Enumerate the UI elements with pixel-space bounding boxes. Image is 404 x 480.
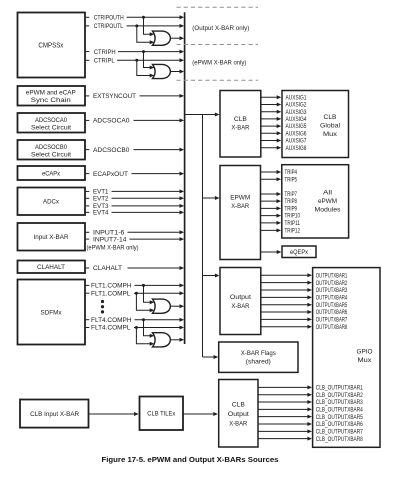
svg-text:FLT4.COMPL: FLT4.COMPL <box>91 325 131 332</box>
wire AUXSIG4 <box>261 118 278 120</box>
dashed separator bottom <box>177 79 259 81</box>
svg-text:(ePWM X-BAR only): (ePWM X-BAR only) <box>192 60 246 67</box>
wire CTRIPOUTL to bus <box>127 25 181 27</box>
block SDFMx sigma delta filter module <box>18 280 86 345</box>
wire TRIP7 <box>261 193 278 195</box>
svg-text:CTRIPOUTH: CTRIPOUTH <box>94 15 124 22</box>
signal INPUT1-6 <box>85 231 89 233</box>
block eQEPx <box>282 246 316 258</box>
svg-text:CLB: CLB <box>324 114 337 121</box>
svg-text:CLB: CLB <box>234 116 247 123</box>
wire G3 output to bus <box>171 305 181 307</box>
svg-text:(ePWM X-BAR only): (ePWM X-BAR only) <box>87 245 139 252</box>
svg-text:Mux: Mux <box>358 357 373 364</box>
wire CLB_OUTPUTXBAR4 <box>258 408 309 410</box>
svg-text:ePWM and eCAP: ePWM and eCAP <box>26 90 77 97</box>
block CLB Global Mux <box>282 91 349 158</box>
or-gate G1 CTRIPOUT combine <box>153 31 171 45</box>
svg-text:AUXSIG6: AUXSIG6 <box>286 131 308 137</box>
svg-text:eCAPx: eCAPx <box>42 170 61 177</box>
wire CTRIPL to bus <box>117 59 181 61</box>
wire FLT4.COMPL to OR gate G4 <box>136 328 150 344</box>
pin CTRIPH label and tick <box>85 51 89 53</box>
signal ECAPxOUT <box>85 173 89 175</box>
block ADCSOCA0 Select Circuit <box>18 113 86 133</box>
svg-text:CLB_OUTPUTXBAR8: CLB_OUTPUTXBAR8 <box>316 437 364 443</box>
wire OUTPUTXBAR6 <box>261 311 309 313</box>
svg-text:AUXSIG7: AUXSIG7 <box>286 139 308 145</box>
svg-text:(shared): (shared) <box>246 359 271 366</box>
wire CTRIPH to bus <box>118 51 181 53</box>
block EPWM X-BAR <box>220 166 261 260</box>
wire CLB_OUTPUTXBAR5 <box>258 416 309 418</box>
svg-text:AUXSIG2: AUXSIG2 <box>286 103 308 109</box>
svg-text:SDFMx: SDFMx <box>41 309 63 316</box>
svg-text:AUXSIG8: AUXSIG8 <box>286 146 308 152</box>
svg-text:TRIP7: TRIP7 <box>285 192 298 198</box>
block ADCx <box>18 188 86 216</box>
svg-text:CTRIPH: CTRIPH <box>94 49 116 56</box>
svg-text:OUTPUTXBAR7: OUTPUTXBAR7 <box>316 318 348 324</box>
pin FLT4.COMPL label and tick <box>85 327 89 329</box>
wire OUTPUTXBAR3 <box>261 289 309 291</box>
svg-text:X-BAR: X-BAR <box>229 420 247 427</box>
dashed separator top <box>177 6 259 8</box>
wire TRIP4 <box>261 171 278 173</box>
wire CTRIPH to OR gate G2 <box>144 52 151 68</box>
svg-text:CLAHALT: CLAHALT <box>37 264 65 271</box>
svg-text:Input X-BAR: Input X-BAR <box>34 234 69 241</box>
svg-text:TRIP5: TRIP5 <box>285 177 298 183</box>
junction FLT4.COMPH <box>142 318 145 321</box>
svg-text:EVT4: EVT4 <box>93 210 109 217</box>
block Input X-BAR <box>18 223 86 251</box>
block CLB Output X-BAR <box>219 380 258 448</box>
svg-text:Mux: Mux <box>323 131 338 138</box>
svg-text:ADCx: ADCx <box>43 199 60 206</box>
block CLB TILEx <box>140 397 184 431</box>
svg-text:All: All <box>323 190 333 197</box>
svg-text:OUTPUTXBAR3: OUTPUTXBAR3 <box>316 288 348 294</box>
svg-text:eQEPx: eQEPx <box>290 249 308 256</box>
wire OUTPUTXBAR4 <box>261 296 309 298</box>
svg-text:AUXSIG1: AUXSIG1 <box>286 95 308 101</box>
pin CTRIPL label and tick <box>85 59 89 61</box>
block ePWM and eCAP Sync Chain <box>18 86 86 106</box>
signal CLAHALT <box>85 267 89 269</box>
svg-text:X-BAR: X-BAR <box>231 203 249 210</box>
svg-text:TRIP10: TRIP10 <box>285 214 301 220</box>
junction FLT4.COMPL <box>135 326 138 329</box>
junction CTRIPH <box>142 50 145 53</box>
svg-text:CLB_OUTPUTXBAR7: CLB_OUTPUTXBAR7 <box>316 429 364 435</box>
svg-text:Sync Chain: Sync Chain <box>31 97 71 104</box>
wire G4 output to bus <box>171 339 181 341</box>
svg-text:CLB Input X-BAR: CLB Input X-BAR <box>30 411 79 418</box>
svg-text:X-BAR: X-BAR <box>231 303 249 310</box>
svg-text:FLT1.COMPH: FLT1.COMPH <box>91 283 132 290</box>
pin FLT4.COMPH label and tick <box>85 319 89 321</box>
svg-text:CLB_OUTPUTXBAR2: CLB_OUTPUTXBAR2 <box>316 393 364 399</box>
svg-text:ePWM: ePWM <box>318 198 337 205</box>
wire distribution vertical <box>202 115 204 358</box>
svg-text:OUTPUTXBAR8: OUTPUTXBAR8 <box>316 325 348 331</box>
wire OUTPUTXBAR7 <box>261 318 309 320</box>
wire CTRIPL to OR gate G2 <box>137 60 151 75</box>
junction CTRIPOUTH <box>142 16 145 19</box>
svg-text:GPIO: GPIO <box>357 348 373 355</box>
svg-text:EPWM: EPWM <box>230 194 250 201</box>
wire branch to Output X-BAR input <box>203 275 217 277</box>
svg-text:CMPSSx: CMPSSx <box>38 42 63 49</box>
svg-text:ADCSOCA0: ADCSOCA0 <box>35 117 67 124</box>
signal EVT1 <box>85 190 89 192</box>
svg-text:Output: Output <box>230 294 251 301</box>
signal EVT4 <box>85 211 89 213</box>
wire CLB TILEx to CLB Output X-BAR <box>183 413 215 415</box>
or-gate G2 CTRIP combine <box>153 64 171 78</box>
wire CTRIPOUTH to bus <box>127 16 181 18</box>
svg-text:OUTPUTXBAR6: OUTPUTXBAR6 <box>316 310 348 316</box>
pin FLT1.COMPH label and tick <box>85 284 89 286</box>
svg-text:CTRIPOUTL: CTRIPOUTL <box>94 23 124 30</box>
svg-text:CLB: CLB <box>232 402 245 409</box>
svg-text:CTRIPL: CTRIPL <box>94 58 116 65</box>
wire AUXSIG5 <box>261 125 278 127</box>
svg-text:OUTPUTXBAR4: OUTPUTXBAR4 <box>316 295 348 301</box>
svg-text:AUXSIG3: AUXSIG3 <box>286 110 308 116</box>
svg-text:EXTSYNCOUT: EXTSYNCOUT <box>93 93 136 100</box>
svg-text:X-BAR Flags: X-BAR Flags <box>241 350 277 357</box>
wire AUXSIG1 <box>261 96 278 98</box>
or-gate G4 FLT4 combine <box>153 333 171 347</box>
wire AUXSIG3 <box>261 111 278 113</box>
svg-text:OUTPUTXBAR2: OUTPUTXBAR2 <box>316 281 348 287</box>
svg-text:Modules: Modules <box>315 207 342 214</box>
wire TRIP8 <box>261 200 278 202</box>
wire branch to X-BAR Flags input <box>203 356 216 358</box>
wire G1 output to bus <box>171 37 181 39</box>
wire TRIP12 <box>261 229 278 231</box>
wire TRIP11 <box>261 222 278 224</box>
svg-text:Output: Output <box>228 411 249 418</box>
svg-text:AUXSIG5: AUXSIG5 <box>286 124 308 130</box>
svg-text:CLB_OUTPUTXBAR3: CLB_OUTPUTXBAR3 <box>316 400 364 406</box>
junction CTRIPOUTL <box>135 24 138 27</box>
pin CTRIPOUTL label and tick <box>85 25 89 27</box>
svg-text:ADCSOCA0: ADCSOCA0 <box>93 118 130 125</box>
signal EVT2 <box>85 197 89 199</box>
wire FLT1.COMPH to OR gate G3 <box>144 285 151 302</box>
wire CLB_OUTPUTXBAR8 <box>258 438 309 440</box>
or-gate G3 FLT1 combine <box>153 299 171 313</box>
block GPIO Mux <box>313 268 380 448</box>
svg-text:TRIP8: TRIP8 <box>285 199 298 205</box>
signal ADCSOCA0 <box>85 119 89 121</box>
block CLAHALT <box>18 261 86 274</box>
svg-text:Global: Global <box>320 123 340 130</box>
wire FLT4.COMPH to bus <box>135 319 181 321</box>
wire OUTPUTXBAR2 <box>261 282 309 284</box>
svg-text:Select Circuit: Select Circuit <box>31 151 71 158</box>
junction CTRIPL <box>135 59 138 62</box>
wire CLB_OUTPUTXBAR7 <box>258 430 309 432</box>
svg-text:ECAPxOUT: ECAPxOUT <box>93 171 128 178</box>
svg-text:Select Circuit: Select Circuit <box>31 124 71 131</box>
wire CLB_OUTPUTXBAR1 <box>258 386 309 388</box>
block CLB X-BAR <box>220 91 261 158</box>
signal INPUT7-14 <box>85 238 89 240</box>
svg-text:CLB TILEx: CLB TILEx <box>147 411 176 418</box>
wire AUXSIG7 <box>261 140 278 142</box>
wire OUTPUTXBAR1 <box>261 274 309 276</box>
wire TRIP10 <box>261 215 278 217</box>
wire bus to CLB X-BAR input <box>185 114 217 116</box>
svg-text:OUTPUTXBAR5: OUTPUTXBAR5 <box>316 303 348 309</box>
block ADCSOCB0 Select Circuit <box>18 140 86 160</box>
wire CTRIPOUTL to OR gate G1 <box>137 26 151 42</box>
ellipsis between FLT1 and FLT4 <box>101 300 104 303</box>
block eCAPx <box>18 166 86 180</box>
wire AUXSIG2 <box>261 104 278 106</box>
wire branch to EPWM X-BAR input <box>203 197 217 199</box>
pin CTRIPOUTH label and tick <box>85 16 89 18</box>
svg-text:CLB_OUTPUTXBAR4: CLB_OUTPUTXBAR4 <box>316 407 364 413</box>
svg-text:CLB_OUTPUTXBAR1: CLB_OUTPUTXBAR1 <box>316 386 364 392</box>
svg-text:TRIP9: TRIP9 <box>285 207 298 213</box>
wire FLT4.COMPL to bus <box>134 327 181 329</box>
signal EVT3 <box>85 205 89 207</box>
svg-text:TRIP4: TRIP4 <box>285 170 298 176</box>
svg-text:AUXSIG4: AUXSIG4 <box>286 117 308 123</box>
junction FLT1.COMPH <box>142 284 145 287</box>
svg-text:OUTPUTXBAR1: OUTPUTXBAR1 <box>316 273 348 279</box>
wire main signal bus vertical <box>184 12 186 344</box>
wire CLB Input X-BAR to CLB TILEx <box>89 413 136 415</box>
wire EPWM X-BAR to eQEPx <box>261 251 279 253</box>
svg-text:FLT4.COMPH: FLT4.COMPH <box>91 317 132 324</box>
wire AUXSIG8 <box>261 147 278 149</box>
wire FLT1.COMPL to OR gate G3 <box>136 293 150 310</box>
svg-text:CLAHALT: CLAHALT <box>93 265 122 272</box>
pin FLT1.COMPL label and tick <box>85 292 89 294</box>
block All ePWM Modules <box>282 165 349 238</box>
wire TRIP5 <box>261 178 278 180</box>
dashed separator middle <box>177 44 259 46</box>
wire CLB_OUTPUTXBAR2 <box>258 394 309 396</box>
junction FLT1.COMPL <box>135 292 138 295</box>
wire FLT4.COMPH to OR gate G4 <box>144 320 151 336</box>
svg-text:FLT1.COMPL: FLT1.COMPL <box>91 290 131 297</box>
wire OUTPUTXBAR5 <box>261 304 309 306</box>
svg-text:INPUT7-14: INPUT7-14 <box>93 236 127 243</box>
svg-text:TRIP11: TRIP11 <box>285 221 301 227</box>
svg-text:X-BAR: X-BAR <box>231 125 249 132</box>
wire FLT1.COMPH to bus <box>135 284 181 286</box>
block X-BAR Flags shared <box>219 342 298 372</box>
wire CLB_OUTPUTXBAR6 <box>258 423 309 425</box>
svg-text:Figure 17-5. ePWM and Output X: Figure 17-5. ePWM and Output X-BARs Sour… <box>102 457 279 464</box>
block CMPSSx comparator subsystem <box>18 13 86 78</box>
wire G2 output to bus <box>171 71 181 73</box>
svg-text:ADCSOCB0: ADCSOCB0 <box>35 144 67 151</box>
wire TRIP9 <box>261 207 278 209</box>
wire AUXSIG6 <box>261 132 278 134</box>
wire CLB_OUTPUTXBAR3 <box>258 401 309 403</box>
svg-text:EVT2: EVT2 <box>93 196 109 203</box>
wire OUTPUTXBAR8 <box>261 326 309 328</box>
svg-text:CLB_OUTPUTXBAR6: CLB_OUTPUTXBAR6 <box>316 422 364 428</box>
block Output X-BAR <box>220 268 261 335</box>
svg-text:CLB_OUTPUTXBAR5: CLB_OUTPUTXBAR5 <box>316 415 364 421</box>
svg-text:TRIP12: TRIP12 <box>285 229 301 235</box>
svg-text:(Output X-BAR only): (Output X-BAR only) <box>192 25 249 32</box>
signal EXTSYNCOUT <box>85 95 89 97</box>
wire FLT1.COMPL to bus <box>134 292 181 294</box>
block CLB Input X-BAR <box>20 400 89 428</box>
svg-text:ADCSOCB0: ADCSOCB0 <box>93 147 130 154</box>
wire CTRIPOUTH to OR gate G1 <box>144 17 151 34</box>
signal ADCSOCB0 <box>85 149 89 151</box>
